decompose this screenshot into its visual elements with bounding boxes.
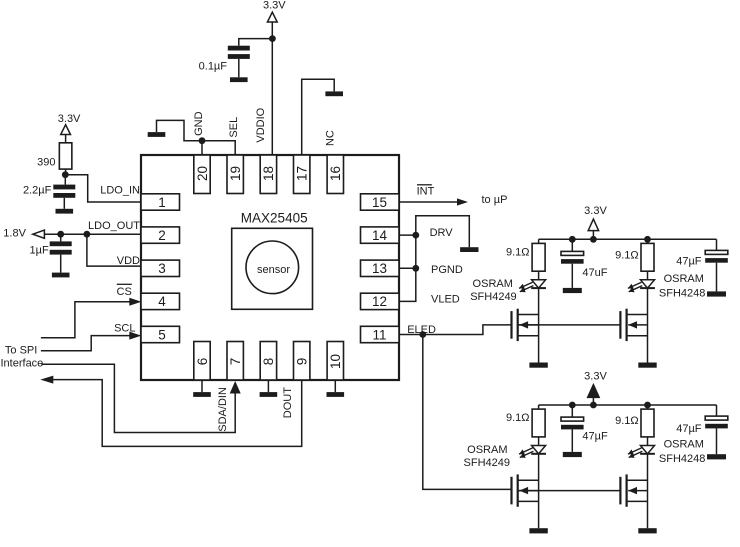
wire resistor to LED (bank2 R3)	[647, 437, 649, 446]
pin 7 pad	[227, 342, 243, 381]
svg-text:Interface: Interface	[1, 357, 44, 369]
wire rail to cap (bank1 C4)	[571, 239, 573, 251]
ground (C3)	[52, 273, 70, 278]
pin 3 pad	[141, 260, 180, 276]
wire LED to MOSFET/ground (bank1 R3)	[647, 288, 649, 362]
svg-text:12: 12	[372, 294, 387, 309]
wire to capacitor C1	[239, 39, 273, 46]
pin 18 pad	[260, 155, 276, 194]
node junction dot 3.3V (bank2)	[590, 402, 597, 409]
ground (C2)	[56, 209, 74, 214]
svg-text:VDD: VDD	[117, 255, 140, 267]
svg-text:8: 8	[261, 358, 276, 366]
ground (DRV bus)	[460, 247, 478, 252]
resistor R1 390	[59, 143, 72, 169]
ground (pin 8)	[260, 392, 278, 397]
svg-text:11: 11	[372, 327, 386, 342]
svg-text:to µP: to µP	[482, 194, 508, 206]
ground (cap bank1 C4)	[563, 288, 582, 293]
svg-text:OSRAM: OSRAM	[473, 278, 513, 290]
svg-text:47µF: 47µF	[676, 423, 702, 435]
wire gate bus (bank2)	[518, 490, 621, 492]
svg-text:3: 3	[158, 261, 166, 276]
ground (cap bank2 C5)	[707, 454, 726, 459]
resistor 9.1ohm (bank1 R2)	[532, 243, 545, 271]
pin 17 pad	[294, 155, 310, 194]
wire pin 8 to ground	[267, 380, 269, 392]
ground (cap bank2 C4)	[563, 452, 582, 457]
svg-text:2.2µF: 2.2µF	[23, 185, 52, 197]
wire rail to resistor (bank1 R3)	[647, 239, 649, 243]
arrow into pin 4	[129, 298, 141, 306]
LED OSRAM (bank2 R3)	[641, 446, 655, 454]
svg-text:SFH4249: SFH4249	[464, 457, 510, 469]
pin 5 pad	[141, 326, 180, 342]
node junction dot ELED	[419, 331, 426, 338]
wire pin 6 to ground	[201, 380, 203, 392]
wire pin 13 to bus	[399, 267, 416, 269]
wire LED to MOSFET/ground (bank2 R3)	[647, 454, 649, 528]
wire rail to resistor (bank2 R2)	[538, 405, 540, 409]
svg-text:6: 6	[195, 358, 210, 366]
svg-text:10: 10	[328, 354, 343, 369]
svg-text:OSRAM: OSRAM	[664, 439, 704, 451]
wire rail to resistor (bank2 R3)	[647, 405, 649, 409]
node junction dot 1uF	[57, 231, 64, 238]
transistor MOSFET (bank1 R3)	[619, 311, 621, 339]
svg-text:LDO_OUT: LDO_OUT	[88, 220, 140, 232]
svg-text:MAX25405: MAX25405	[241, 211, 308, 226]
svg-text:3.3V: 3.3V	[263, 0, 286, 12]
svg-text:14: 14	[372, 228, 388, 243]
svg-text:To SPI: To SPI	[5, 344, 37, 356]
resistor 9.1ohm (bank2 R2)	[532, 409, 545, 437]
wire 3.3V stem (bank1)	[592, 231, 594, 240]
wire node to C2	[64, 175, 66, 185]
supply 3.3V arrow (bank2)	[587, 383, 601, 398]
wire node to C3	[60, 234, 62, 241]
wire supply rail (bank2)	[539, 404, 717, 406]
svg-text:20: 20	[195, 166, 210, 181]
svg-text:15: 15	[372, 195, 387, 210]
wire resistor to LED (bank1 R2)	[538, 271, 540, 280]
wire ground to pins 20/19	[157, 120, 236, 155]
svg-text:GND: GND	[193, 111, 205, 136]
wire INT to uP	[399, 201, 458, 203]
node junction dot 3.3V (bank1)	[590, 236, 597, 243]
pin 9 pad	[294, 342, 310, 381]
wire rail to resistor (bank1 R2)	[538, 239, 540, 243]
op-amp U1 MAX25405 IC body	[141, 155, 399, 380]
svg-text:sensor: sensor	[257, 264, 290, 276]
wire SDA/DIN from Interface to pin 7	[41, 364, 235, 432]
pin 12 pad	[361, 293, 400, 309]
wire rail to cap (bank2 C4)	[571, 405, 573, 417]
svg-text:9.1Ω: 9.1Ω	[506, 246, 530, 258]
node junction dot R1/C2	[62, 171, 69, 178]
svg-text:47µF: 47µF	[676, 256, 702, 268]
capacitor 47uF (bank2 C5)	[705, 416, 728, 420]
svg-text:17: 17	[295, 166, 310, 181]
svg-text:16: 16	[328, 166, 343, 181]
node junction dot cap1 (bank1)	[569, 236, 576, 243]
pin 8 pad	[260, 342, 276, 381]
svg-text:47uF: 47uF	[582, 267, 607, 279]
wire rail to cap (bank2 C5)	[716, 405, 718, 416]
svg-text:DRV: DRV	[430, 227, 454, 239]
svg-text:9.1Ω: 9.1Ω	[615, 415, 639, 427]
supply 3.3V arrow (left)	[61, 125, 71, 135]
wire 3.3V to R1	[65, 135, 67, 143]
svg-text:VDDIO: VDDIO	[255, 107, 267, 142]
wire C2 to ground	[63, 198, 65, 209]
svg-text:1: 1	[158, 195, 166, 210]
pin 2 pad	[141, 227, 180, 243]
svg-text:9.1Ω: 9.1Ω	[615, 249, 639, 261]
capacitor C2 2.2uF	[53, 185, 75, 190]
wire gate bus (bank1)	[518, 324, 621, 326]
wire node to LDO_IN pin 1	[65, 175, 141, 202]
svg-text:4: 4	[158, 294, 166, 309]
supply 3.3V arrow (top)	[267, 12, 277, 22]
node junction dot VDD branch	[84, 231, 91, 238]
transistor MOSFET (bank2 R2)	[510, 477, 512, 505]
wire 3.3V to VDDIO pin 18	[271, 22, 273, 155]
capacitor 47uF (bank2 C4)	[561, 417, 584, 421]
node junction dot R2 (bank1)	[644, 236, 651, 243]
U1 sensor circle	[246, 241, 299, 294]
svg-text:CS: CS	[117, 286, 132, 298]
pin 4 name CS overbar	[117, 283, 132, 285]
wire rail to cap (bank1 C5)	[716, 239, 718, 250]
arrow INT	[457, 198, 468, 205]
svg-text:47µF: 47µF	[582, 431, 608, 443]
svg-text:VLED: VLED	[431, 293, 460, 305]
svg-text:LDO_IN: LDO_IN	[100, 184, 140, 196]
transistor MOSFET (bank2 R3)	[619, 477, 621, 505]
ground (pin 10)	[327, 392, 345, 397]
pin 15 name INT overbar	[417, 184, 432, 186]
wire pin 14 to bus	[399, 234, 416, 236]
svg-text:3.3V: 3.3V	[58, 113, 81, 125]
transistor MOSFET (bank1 R2)	[510, 311, 512, 339]
pin 16 pad	[327, 155, 343, 194]
pin 14 pad	[361, 227, 400, 243]
pin 1 pad	[141, 194, 180, 210]
pin 15 pad	[361, 194, 400, 210]
pin 13 pad	[361, 260, 400, 276]
svg-text:SFH4248: SFH4248	[659, 287, 705, 299]
LED OSRAM (bank1 R3)	[641, 280, 655, 288]
svg-text:DOUT: DOUT	[282, 387, 294, 418]
wire CS to pin 4	[41, 302, 133, 338]
pin 4 pad	[141, 293, 180, 309]
wire C1 to ground	[238, 59, 240, 77]
node junction dot 3.3V/0.1uF	[269, 35, 276, 42]
wire cap to ground (bank1 C5)	[716, 263, 718, 292]
wire cap to ground (bank1 C4)	[571, 264, 573, 288]
svg-text:NC: NC	[325, 130, 337, 146]
ground (pin 6)	[193, 392, 211, 397]
resistor 9.1ohm (bank2 R3)	[641, 409, 654, 437]
wire R1 to node	[65, 169, 67, 175]
wire SCL to pin 5	[41, 336, 133, 351]
wire C3 to ground	[60, 255, 62, 273]
wire resistor to LED (bank2 R2)	[538, 437, 540, 446]
wire VDD branch to pin 3	[87, 234, 141, 266]
svg-text:SFH4248: SFH4248	[659, 453, 705, 465]
svg-text:1.8V: 1.8V	[3, 228, 26, 240]
svg-text:SCL: SCL	[114, 322, 135, 334]
svg-text:2: 2	[158, 228, 166, 243]
arrow DOUT output	[40, 376, 53, 384]
svg-text:18: 18	[261, 166, 276, 181]
svg-text:OSRAM: OSRAM	[467, 444, 507, 456]
wire ELED to bank1 gates	[399, 325, 512, 335]
wire ELED to bank2 gates	[423, 335, 512, 490]
wire LDO_OUT pin 2 to 1.8V	[44, 233, 141, 235]
arrow into pin 5	[129, 332, 141, 340]
ground (MOSFET bank1 R2)	[529, 363, 547, 368]
node junction dot R2 (bank2)	[644, 402, 651, 409]
svg-text:13: 13	[372, 261, 387, 276]
wire resistor to LED (bank1 R3)	[647, 271, 649, 280]
capacitor 47uF (bank1 C5)	[705, 250, 728, 254]
ground (pins 20/19)	[148, 132, 166, 137]
LED OSRAM (bank2 R2)	[532, 446, 546, 454]
svg-text:SFH4249: SFH4249	[470, 291, 516, 303]
svg-text:PGND: PGND	[431, 264, 463, 276]
svg-text:INT: INT	[417, 186, 435, 198]
capacitor C1 0.1uF	[228, 46, 250, 51]
ground (pin 17)	[325, 91, 343, 96]
capacitor 47uF (bank1 C4)	[561, 251, 584, 255]
svg-text:9.1Ω: 9.1Ω	[506, 412, 530, 424]
wire cap to ground (bank2 C5)	[716, 428, 718, 454]
svg-text:9: 9	[295, 358, 310, 366]
wire pin 10 to ground	[334, 380, 336, 392]
wire pin 17 to ground	[302, 79, 335, 155]
pin 19 pad	[227, 155, 243, 194]
wire pin 20 riser	[201, 141, 203, 155]
svg-text:OSRAM: OSRAM	[664, 273, 704, 285]
svg-text:0.1µF: 0.1µF	[199, 61, 228, 73]
ground (MOSFET bank2 R3)	[638, 528, 656, 533]
capacitor C3 1uF	[50, 241, 72, 246]
node junction dot cap1 (bank2)	[569, 402, 576, 409]
pin 11 pad	[361, 326, 400, 342]
LED OSRAM (bank1 R2)	[532, 280, 546, 288]
wire LED to MOSFET/ground (bank1 R2)	[538, 288, 540, 362]
wire 3.3V stem (bank2)	[592, 397, 594, 405]
wire cap to ground (bank2 C4)	[571, 429, 573, 452]
resistor 9.1ohm (bank1 R3)	[641, 243, 654, 271]
ground (C1)	[230, 77, 248, 82]
svg-text:5: 5	[158, 327, 166, 342]
ground (MOSFET bank2 R2)	[529, 528, 547, 533]
pin 10 pad	[327, 342, 343, 381]
svg-text:19: 19	[228, 166, 243, 181]
wire DOUT from pin 9	[53, 380, 302, 447]
node junction dot DRV	[412, 232, 419, 239]
svg-text:3.3V: 3.3V	[584, 205, 607, 217]
svg-text:SDA/DIN: SDA/DIN	[217, 387, 229, 432]
net 1.8V arrow	[33, 230, 45, 238]
U1 inner die square	[232, 228, 313, 309]
pin 6 pad	[194, 342, 210, 381]
supply 3.3V arrow (bank1)	[588, 219, 598, 231]
svg-text:SEL: SEL	[228, 117, 240, 138]
node junction dot pin 20	[199, 137, 206, 144]
arrow into pin 7	[230, 381, 241, 394]
svg-text:390: 390	[37, 156, 55, 168]
pin 20 pad	[194, 155, 210, 194]
node junction dot PGND	[412, 265, 419, 272]
ground (cap bank1 C5)	[707, 291, 726, 296]
wire pin 12 to bus	[399, 216, 469, 302]
wire supply rail (bank1)	[539, 238, 717, 240]
svg-text:3.3V: 3.3V	[584, 371, 607, 383]
wire LED to MOSFET/ground (bank2 R2)	[538, 454, 540, 528]
ground (MOSFET bank1 R3)	[638, 363, 656, 368]
svg-text:7: 7	[228, 358, 243, 366]
svg-text:1µF: 1µF	[30, 245, 49, 257]
